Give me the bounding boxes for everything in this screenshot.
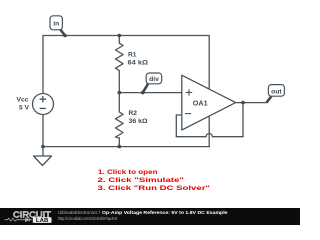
resistor R2 — [116, 112, 124, 138]
svg-text:UltimateElectronics /: UltimateElectronics / — [58, 210, 101, 216]
svg-text:R2: R2 — [129, 110, 138, 117]
svg-text:OA1: OA1 — [193, 100, 208, 107]
node out flag — [267, 85, 285, 103]
resistor R1 — [116, 43, 124, 70]
svg-text:36 kΩ: 36 kΩ — [129, 118, 149, 125]
svg-text:64 kΩ: 64 kΩ — [128, 59, 149, 66]
junction dot R1 top — [118, 34, 122, 38]
wire R2 top lead — [118, 93, 120, 112]
svg-text:out: out — [271, 88, 282, 95]
wire R2 bottom lead — [118, 138, 120, 147]
annotation red instructions — [98, 169, 211, 192]
wire bottom rail — [43, 146, 209, 148]
junction dot output node — [241, 101, 245, 105]
CircuitLab logo resistor zigzag — [5, 218, 20, 221]
svg-text:Op-Amp Voltage Reference: 5V t: Op-Amp Voltage Reference: 5V to 1.8V DC … — [102, 210, 228, 216]
wire op-amp output — [236, 102, 267, 104]
svg-text:3. Click "Run DC Solver": 3. Click "Run DC Solver" — [98, 185, 211, 192]
junction dot ground tap — [41, 145, 45, 149]
svg-text:2. Click "Simulate": 2. Click "Simulate" — [98, 177, 185, 184]
wire top rail — [43, 35, 209, 37]
svg-text:R1: R1 — [128, 52, 137, 59]
junction dot div tap — [141, 91, 145, 95]
svg-text:in: in — [53, 21, 59, 28]
svg-text:LAB: LAB — [36, 218, 49, 224]
footer branding bar — [0, 208, 300, 225]
wire op-amp V+ drop — [208, 36, 210, 90]
svg-text:div: div — [149, 76, 159, 83]
svg-text:5 V: 5 V — [19, 104, 30, 111]
node in flag — [50, 16, 65, 36]
wire op-amp V- riser — [208, 115, 210, 146]
op-amp OA1 - input marker — [185, 113, 191, 115]
junction dot in tap — [63, 34, 67, 38]
wire feedback horizontal with hop over V- riser — [176, 134, 243, 137]
svg-text:1. Click to open: 1. Click to open — [98, 169, 158, 176]
node div flag — [143, 73, 162, 93]
junction dot R2 bottom — [118, 145, 122, 149]
wire div net to op-amp + input — [119, 92, 182, 94]
wire R1 bottom lead — [118, 71, 120, 93]
wire feedback vertical from output — [242, 103, 244, 137]
svg-text:http://circuitlab.com/c9z4mk57: http://circuitlab.com/c9z4mk57ap4c9 — [58, 216, 117, 222]
wire Vcc top lead — [42, 36, 44, 94]
wire R1 top lead — [118, 36, 120, 44]
junction dot div node — [118, 91, 122, 95]
CircuitLab logo diode — [20, 218, 32, 222]
CircuitLab logo LAB box — [33, 217, 52, 223]
op-amp OA1 — [182, 75, 236, 130]
wire to op-amp - input — [176, 114, 182, 116]
ground — [34, 147, 52, 166]
wire Vcc bottom lead — [42, 115, 44, 147]
voltage source Vcc — [33, 94, 54, 115]
wire feedback left riser — [175, 115, 177, 137]
svg-text:Vcc: Vcc — [17, 96, 29, 103]
op-amp OA1 + input marker — [186, 89, 192, 95]
